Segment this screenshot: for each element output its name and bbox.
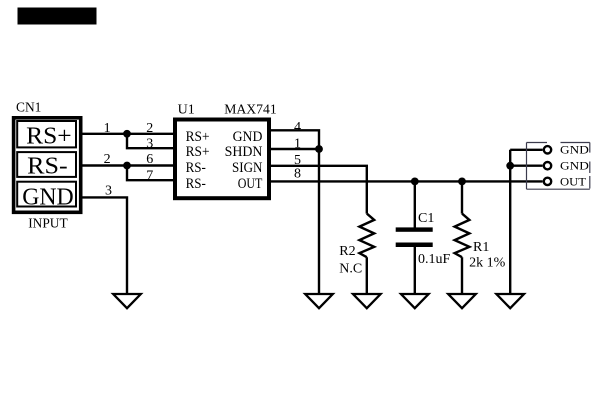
wire U1 pin4 GND to node C <box>270 130 319 149</box>
wire node B down branch <box>127 166 175 181</box>
node B junction dot <box>123 162 131 170</box>
wire C1 to ground <box>414 247 416 293</box>
wire node A down branch <box>127 134 175 148</box>
node D junction dot (C1 tap) <box>411 178 419 186</box>
svg-text:4: 4 <box>294 120 301 135</box>
wire R2 to ground <box>366 257 368 293</box>
svg-text:2: 2 <box>146 121 153 136</box>
svg-text:CN1: CN1 <box>16 101 41 116</box>
ground symbol under C1 <box>401 294 429 308</box>
svg-text:OUT: OUT <box>238 176 263 192</box>
svg-text:MAX741: MAX741 <box>224 103 277 118</box>
wire CN1 pin2 to node B <box>81 164 175 166</box>
svg-text:RS+: RS+ <box>186 129 210 145</box>
svg-text:INPUT: INPUT <box>28 216 68 231</box>
wire R1 to ground <box>461 257 463 293</box>
svg-text:3: 3 <box>146 137 153 152</box>
black filled box (top-left mark) <box>18 8 97 25</box>
connector CN1 pin 1 cell RS+ <box>17 121 76 149</box>
svg-text:GND: GND <box>560 159 589 173</box>
svg-text:R1: R1 <box>473 240 489 255</box>
wire node C to ground <box>318 149 320 293</box>
node C junction dot <box>315 145 323 153</box>
svg-text:C1: C1 <box>418 211 434 226</box>
wire GND row1 to header <box>510 149 542 151</box>
svg-text:1: 1 <box>104 121 111 136</box>
svg-text:RS-: RS- <box>27 154 67 180</box>
svg-text:RS-: RS- <box>186 176 206 192</box>
svg-text:2k 1%: 2k 1% <box>469 256 506 271</box>
svg-text:OUT: OUT <box>560 174 587 188</box>
node E junction dot (R1 tap) <box>458 178 466 186</box>
svg-text:RS+: RS+ <box>186 144 210 160</box>
svg-text:2: 2 <box>104 152 111 167</box>
svg-text:3: 3 <box>105 184 112 199</box>
svg-text:GND: GND <box>560 143 589 157</box>
wire U1 pin1 SHDN to node C <box>270 148 319 150</box>
svg-text:N.C: N.C <box>339 262 362 277</box>
wire U1 pin8 OUT bus <box>270 180 543 182</box>
header pin circle OUT <box>544 178 551 185</box>
wire CN1 pin3 to ground <box>81 197 127 293</box>
svg-text:1: 1 <box>294 136 301 151</box>
svg-text:GND: GND <box>233 129 263 145</box>
wire U1 pin5 SIGN to R2 <box>270 166 367 214</box>
op-amp / IC U1 box <box>175 120 269 199</box>
wire CN1 pin1 to node A <box>81 133 175 135</box>
svg-text:GND: GND <box>22 185 73 211</box>
wire GND bus vertical (to output header) <box>509 150 511 293</box>
svg-text:SHDN: SHDN <box>225 144 263 160</box>
svg-text:RS-: RS- <box>186 160 206 176</box>
svg-text:SIGN: SIGN <box>232 160 263 176</box>
resistor R2 <box>339 214 374 277</box>
ground symbol under R1 <box>448 294 476 308</box>
svg-text:7: 7 <box>146 169 153 184</box>
node A junction dot <box>123 130 131 138</box>
connector CN1 pin 3 cell GND <box>17 182 76 211</box>
connector CN1 pin 2 cell RS- <box>17 152 76 180</box>
wire node E to R1 <box>461 181 463 213</box>
capacitor C1 <box>396 211 451 267</box>
output header outline <box>527 143 590 190</box>
svg-text:R2: R2 <box>339 244 355 259</box>
ground symbol under node C <box>305 294 333 308</box>
svg-text:6: 6 <box>146 152 153 167</box>
header pin circle GND1 <box>544 146 551 153</box>
resistor R1 <box>455 214 506 271</box>
wire GND row2 to header <box>510 164 542 166</box>
node F junction dot <box>506 162 514 170</box>
ground symbol under GND bus <box>496 294 524 308</box>
ground symbol under CN1 <box>113 294 141 308</box>
header pin circle GND2 <box>544 162 551 169</box>
svg-text:0.1uF: 0.1uF <box>418 252 451 267</box>
svg-text:8: 8 <box>294 167 301 182</box>
ground symbol under R2 <box>353 294 381 308</box>
wire node D to C1 <box>414 181 416 228</box>
svg-text:RS+: RS+ <box>26 123 72 149</box>
svg-text:U1: U1 <box>178 103 195 118</box>
connector CN1 outer box <box>14 118 81 213</box>
